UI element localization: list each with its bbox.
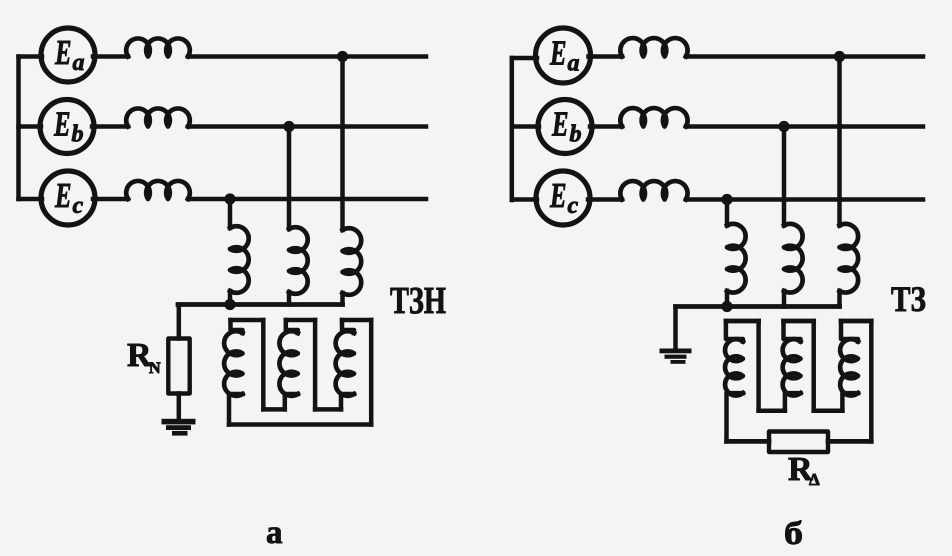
svg-text:a: a [568,51,580,77]
svg-text:N: N [149,360,161,377]
svg-text:б: б [784,516,803,552]
svg-text:Δ: Δ [809,470,820,489]
svg-text:c: c [568,193,579,219]
svg-text:E: E [53,105,70,144]
svg-text:E: E [549,176,566,215]
svg-text:ТЗН: ТЗН [390,280,446,322]
svg-text:b: b [72,122,84,148]
svg-text:c: c [73,193,84,219]
svg-text:E: E [551,105,568,144]
svg-text:ТЗ: ТЗ [891,279,926,319]
svg-text:а: а [266,515,283,551]
svg-text:E: E [54,33,71,72]
svg-text:a: a [73,50,85,76]
svg-text:b: b [570,122,582,148]
svg-text:E: E [54,176,71,215]
svg-text:E: E [549,34,566,73]
